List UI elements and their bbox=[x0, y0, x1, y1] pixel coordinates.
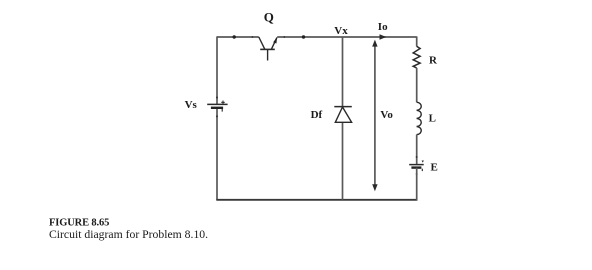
svg-text:Vo: Vo bbox=[380, 109, 393, 121]
battery Vs minus tick bbox=[221, 109, 223, 112]
svg-text:Vx: Vx bbox=[334, 25, 348, 37]
battery E polarity triangle mark bbox=[422, 161, 424, 163]
wire Df branch upper bbox=[342, 37, 344, 107]
svg-text:Vs: Vs bbox=[185, 99, 198, 111]
battery Vs long plate bbox=[207, 103, 227, 105]
arrow Vo measurement line bbox=[372, 40, 377, 192]
battery Vs short plate bbox=[211, 107, 223, 109]
battery E minus tick bbox=[421, 169, 423, 171]
battery E long plate bbox=[409, 164, 424, 166]
battery Vs plus mark bbox=[221, 101, 225, 105]
wire right between L and E bbox=[416, 135, 418, 165]
wire left lower segment bbox=[216, 108, 218, 200]
transistor Q emitter lead with arrow bbox=[271, 37, 277, 50]
arrow Io on top wire bbox=[380, 34, 387, 39]
tick above E battery bbox=[416, 156, 418, 158]
transistor Q base lead bbox=[267, 49, 269, 60]
transistor Q base bar bbox=[260, 48, 275, 50]
tick above Vs battery bbox=[216, 97, 218, 99]
diode Df cathode bar bbox=[334, 106, 352, 108]
node dot left of Q bbox=[233, 35, 236, 38]
wire left upper segment bbox=[216, 36, 218, 104]
wire Df branch lower bbox=[342, 122, 344, 200]
svg-text:FIGURE 8.65: FIGURE 8.65 bbox=[49, 218, 109, 229]
wire right above R bbox=[416, 36, 418, 46]
wire right between R and L bbox=[416, 68, 418, 102]
svg-text:Q: Q bbox=[264, 9, 274, 24]
inductor L bbox=[417, 102, 422, 134]
junction tick left bbox=[252, 36, 254, 38]
battery E short plate bbox=[411, 166, 421, 168]
tick below Vs battery bbox=[216, 115, 218, 117]
svg-text:Circuit diagram for Problem 8.: Circuit diagram for Problem 8.10. bbox=[49, 228, 208, 241]
wire bottom bbox=[216, 199, 417, 201]
svg-text:Io: Io bbox=[378, 21, 388, 33]
svg-text:Df: Df bbox=[311, 109, 323, 121]
svg-text:R: R bbox=[429, 54, 438, 66]
wire right below E bbox=[416, 168, 418, 201]
wire top-right segment bbox=[277, 36, 417, 38]
resistor R zigzag bbox=[413, 46, 420, 68]
transistor Q collector lead bbox=[259, 37, 265, 49]
tick below E battery bbox=[416, 173, 418, 175]
svg-text:L: L bbox=[429, 113, 436, 125]
diode Df triangle bbox=[335, 107, 351, 122]
svg-text:E: E bbox=[431, 161, 438, 173]
wire top-left segment bbox=[217, 36, 259, 38]
junction tick right of Q bbox=[283, 36, 285, 38]
node dot at Vx right bbox=[302, 35, 305, 38]
